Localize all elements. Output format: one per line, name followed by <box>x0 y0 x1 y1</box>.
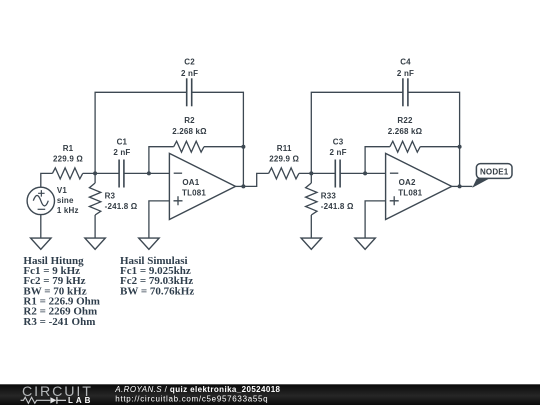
resistor R33 <box>306 173 317 215</box>
ground below R3 <box>85 238 105 249</box>
annotation text Hasil Hitung column <box>23 255 100 328</box>
svg-text:A.ROYAN.S / quiz elektronika_2: A.ROYAN.S / quiz elektronika_20524018 <box>114 385 280 394</box>
svg-text:2 nF: 2 nF <box>113 148 130 157</box>
svg-text:1 kHz: 1 kHz <box>57 206 79 215</box>
label C2 <box>181 58 198 78</box>
svg-text:R3: R3 <box>105 192 116 201</box>
ground below R33 <box>301 238 321 249</box>
svg-text:TL081: TL081 <box>182 188 206 197</box>
footer credit text <box>114 385 280 403</box>
resistor R1 <box>52 168 82 179</box>
svg-text:OA2: OA2 <box>399 178 416 187</box>
svg-text:2 nF: 2 nF <box>330 148 347 157</box>
svg-text:2.268 kΩ: 2.268 kΩ <box>172 127 207 136</box>
svg-text:2.268 kΩ: 2.268 kΩ <box>388 127 423 136</box>
wire C1 to op-amp inverting input <box>124 172 169 174</box>
node C junction dot <box>241 145 245 149</box>
resistor R22 <box>390 141 420 152</box>
wire node D step up to R11 <box>243 173 268 186</box>
label OA2 TL081 <box>398 178 422 197</box>
label R22 <box>388 116 423 136</box>
wire R11 to node E <box>299 172 335 174</box>
label R1 <box>53 144 83 164</box>
wire node H to NODE1 flag <box>460 185 473 187</box>
svg-text:BW = 70.76kHz: BW = 70.76kHz <box>120 285 194 297</box>
wire V1 top to R1 <box>41 173 53 187</box>
wire R3 to ground <box>94 215 96 238</box>
label R2 <box>172 116 207 136</box>
resistor R2 <box>174 141 204 152</box>
label C4 <box>397 58 414 78</box>
node E junction dot <box>309 171 313 175</box>
label V1 sine 1 kHz <box>57 186 79 215</box>
svg-text:LAB: LAB <box>68 396 93 405</box>
ground below V1 <box>31 238 51 249</box>
op-amp OA1 <box>169 153 235 219</box>
wire C4 branch left vertical <box>311 92 403 173</box>
svg-text:-241.8 Ω: -241.8 Ω <box>321 202 354 211</box>
node H junction dot <box>458 184 462 188</box>
svg-text:V1: V1 <box>57 186 68 195</box>
label R3 <box>105 192 138 211</box>
node B junction dot <box>147 171 151 175</box>
wire R22 branch <box>365 147 390 174</box>
svg-text:R1: R1 <box>63 144 74 153</box>
voltage source V1 <box>27 187 54 214</box>
wire R22 to node G <box>420 146 459 148</box>
CircuitLab logo <box>21 384 94 405</box>
svg-text:C4: C4 <box>400 58 411 67</box>
resistor R11 <box>269 168 299 179</box>
svg-text:229.9 Ω: 229.9 Ω <box>269 154 299 163</box>
node G junction dot <box>458 145 462 149</box>
wire OA2 output to node H <box>452 185 460 187</box>
svg-text:C2: C2 <box>184 58 195 67</box>
svg-text:http://circuitlab.com/c5e95763: http://circuitlab.com/c5e957633a55q <box>115 395 268 404</box>
svg-text:-241.8 Ω: -241.8 Ω <box>105 202 138 211</box>
wire V1 bottom stem <box>40 215 42 239</box>
svg-text:R2: R2 <box>184 116 195 125</box>
wire C2 right to output vertical <box>192 92 244 186</box>
wire C3 to op-amp OA2 inverting input <box>340 172 386 174</box>
label R11 <box>269 144 299 164</box>
label C1 <box>113 138 130 157</box>
wire R1 to node A <box>83 172 119 174</box>
wire R2 to node C <box>204 146 243 148</box>
label C3 <box>330 138 347 157</box>
wire op-amp OA2 non-inverting input to ground <box>365 201 386 238</box>
node name flag NODE1 <box>472 164 512 188</box>
node F junction dot <box>363 171 367 175</box>
svg-text:2 nF: 2 nF <box>181 69 198 78</box>
op-amp OA2 <box>386 153 452 219</box>
svg-text:R11: R11 <box>277 144 292 153</box>
capacitor C4 <box>403 78 408 106</box>
capacitor C3 <box>335 160 340 188</box>
wire R33 to ground <box>310 215 312 238</box>
label OA1 TL081 <box>182 178 206 197</box>
capacitor C1 <box>119 160 124 188</box>
svg-text:TL081: TL081 <box>398 188 422 197</box>
wire R2 branch <box>149 147 174 174</box>
svg-text:229.9 Ω: 229.9 Ω <box>53 154 83 163</box>
wire op-amp OA1 non-inverting input to ground <box>149 201 170 238</box>
svg-text:C1: C1 <box>117 138 128 147</box>
ground below OA2 non-inverting input <box>355 238 375 249</box>
svg-text:R3 = -241 Ohm: R3 = -241 Ohm <box>23 316 95 328</box>
ground below OA1 non-inverting input <box>139 238 159 249</box>
svg-text:2 nF: 2 nF <box>397 69 414 78</box>
annotation text Hasil Simulasi column <box>120 255 194 298</box>
wire OA1 output to node D <box>236 185 244 187</box>
svg-text:NODE1: NODE1 <box>480 167 509 176</box>
svg-text:R22: R22 <box>397 116 413 125</box>
node D junction dot <box>241 184 245 188</box>
svg-text:C3: C3 <box>333 138 344 147</box>
capacitor C2 <box>187 78 192 106</box>
wire C4 right to output vertical <box>408 92 460 186</box>
wire C2 branch left vertical <box>95 92 187 173</box>
svg-text:OA1: OA1 <box>182 178 199 187</box>
label R33 <box>321 192 354 211</box>
node A junction dot <box>93 171 97 175</box>
resistor R3 <box>89 173 100 215</box>
svg-text:sine: sine <box>57 196 74 205</box>
svg-text:R33: R33 <box>321 192 337 201</box>
